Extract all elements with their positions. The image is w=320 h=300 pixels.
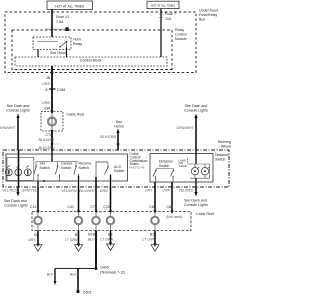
wire: C7 feed corner (96, 162, 108, 187)
svg-text:C12: C12 (30, 205, 37, 209)
svg-text:LT GRN: LT GRN (142, 238, 155, 242)
wire: x18 below block (17, 187, 19, 193)
horn switch 2 (15, 169, 22, 176)
arrow into block (center) (116, 144, 119, 148)
bottom bus (36, 180, 79, 182)
wire: x196 below block (195, 187, 197, 193)
svg-text:G501: G501 (83, 291, 92, 295)
svg-text:GRY: GRY (145, 189, 153, 193)
connector C381 tick (49, 88, 56, 90)
wire: left illumination x=18 (17, 117, 19, 150)
svg-text:Fuse/Relay: Fuse/Relay (199, 13, 217, 17)
fuse F7 element (159, 14, 162, 17)
wire through ring (51, 113, 53, 131)
svg-text:GRY: GRY (28, 238, 36, 242)
bulb loop (188, 164, 210, 178)
wire: main horn wire x=52 from box to cable reel (51, 66, 53, 113)
svg-text:Fuse 7: Fuse 7 (165, 12, 176, 16)
svg-text:Switch: Switch (159, 164, 169, 168)
svg-text:C6: C6 (166, 205, 171, 209)
svg-text:Console Lights: Console Lights (4, 203, 28, 207)
svg-text:(Not used): (Not used) (166, 215, 182, 219)
svg-text:YEL/GRN: YEL/GRN (61, 189, 77, 193)
junction dot on bus (43, 180, 45, 182)
svg-text:Switch: Switch (179, 164, 188, 168)
top bus (set/cancel/resume) (36, 161, 79, 163)
wire: B1 to triangle (78, 231, 80, 246)
svg-text:BLU/WHT: BLU/WHT (79, 189, 96, 193)
svg-text:LT GRN: LT GRN (100, 238, 113, 242)
arrow down x196 (194, 192, 197, 197)
svg-text:GRN/YEL: GRN/YEL (22, 189, 37, 193)
svg-text:See Dash and: See Dash and (4, 199, 27, 203)
svg-text:Console Lights: Console Lights (184, 203, 208, 207)
svg-text:Switch: Switch (215, 157, 225, 161)
svg-text:(Terminals 7-12): (Terminals 7-12) (100, 270, 125, 274)
svg-text:See Dash and: See Dash and (7, 104, 30, 108)
wire: fuse 7 feed x=161 (160, 9, 162, 57)
svg-text:C7A: C7A (46, 133, 54, 137)
svg-text:BLU: BLU (88, 238, 95, 242)
wire: right illumination x=196 (195, 117, 197, 150)
svg-text:LT GRN: LT GRN (65, 238, 78, 242)
label box: HOT AT ALL TIMES (right) (147, 1, 179, 8)
svg-text:BLK/GRN: BLK/GRN (39, 146, 55, 150)
continuation triangle (B2) (34, 245, 42, 252)
wire: relay coil down to control block (37, 50, 39, 58)
svg-text:ORN/WHT: ORN/WHT (176, 126, 194, 130)
LKAS dashed link (187, 159, 189, 165)
svg-text:See Dash and: See Dash and (185, 104, 208, 108)
svg-text:YEL/RED: YEL/RED (2, 189, 17, 193)
svg-text:HOT AT ALL TIMES: HOT AT ALL TIMES (151, 4, 176, 8)
wire: x155 to C8 (154, 182, 156, 212)
svg-text:Control Block: Control Block (80, 59, 102, 63)
svg-text:ORN: ORN (42, 101, 50, 105)
svg-text:Distance: Distance (159, 159, 173, 163)
cable reel ring C7 (95, 212, 97, 231)
svg-text:BLK: BLK (47, 273, 54, 277)
wire: B2 to triangle (37, 231, 39, 246)
wire: x52 into top bus (51, 150, 53, 162)
horn switch sub-box (7, 158, 34, 181)
junction dot at box exit (51, 71, 54, 74)
svg-text:ORN/WHT: ORN/WHT (0, 126, 16, 130)
ground junction G405 (95, 267, 98, 270)
arrow out of cable reel (50, 130, 53, 134)
svg-text:Distance: Distance (215, 153, 229, 157)
arrow down x18 (16, 192, 19, 197)
arrow up (left) (16, 114, 19, 119)
wire: resume output down (C41) (78, 176, 80, 187)
svg-text:ORN: ORN (162, 189, 170, 193)
svg-text:BLK/WHT: BLK/WHT (39, 138, 56, 142)
svg-text:Control: Control (175, 33, 187, 37)
relay control module box (left edge) (171, 30, 173, 73)
inner dashed box (fuse/relay section) (12, 30, 172, 70)
svg-text:Horns: Horns (114, 124, 124, 128)
cable reel ring C41 (78, 212, 80, 231)
cable reel ring C15 (110, 212, 112, 231)
svg-text:Console Lights: Console Lights (6, 108, 30, 112)
svg-text:See Dash and: See Dash and (184, 198, 207, 202)
under-dash fuse/relay box (outer dashed) (5, 12, 196, 73)
ground drop 2 (77, 269, 79, 292)
cable reel ring (48, 118, 56, 126)
bulb 2 (201, 168, 208, 175)
svg-text:HOT AT ALL TIMES: HOT AT ALL TIMES (55, 4, 85, 8)
distance switch 1 (153, 170, 156, 176)
horn relay contact (60, 42, 67, 48)
svg-text:B7B: B7B (88, 233, 95, 237)
svg-text:Fuse 13: Fuse 13 (56, 15, 69, 19)
svg-text:Switch: Switch (61, 166, 71, 170)
wire: B7B ground run (95, 231, 97, 269)
horn switch 1 (5, 169, 12, 176)
cable reel (lower) box (32, 212, 191, 231)
distance/LKAS box (right solid) (150, 154, 213, 183)
svg-text:G405: G405 (100, 266, 109, 270)
cable reel ring C12 (37, 212, 39, 231)
svg-text:8: 8 (46, 88, 48, 92)
svg-text:See Horns: See Horns (50, 51, 67, 55)
cable reel ring C8 (154, 212, 156, 231)
svg-text:Box: Box (199, 18, 205, 22)
steering wheel block (chain line) (3, 150, 229, 187)
svg-text:C41: C41 (67, 205, 74, 209)
svg-text:BLK: BLK (70, 273, 77, 277)
wire: horn wire x=118 (117, 132, 119, 150)
svg-text:ORN: ORN (42, 82, 50, 86)
control block (dashed rect) (15, 57, 167, 66)
wire: x38 to C12 (37, 187, 39, 212)
wire: x172 to C6 (171, 182, 173, 212)
svg-text:BRN: BRN (100, 189, 108, 193)
svg-text:Under-hood: Under-hood (199, 9, 218, 13)
svg-text:Switch: Switch (79, 166, 89, 170)
fuse F13 element (45, 28, 66, 30)
svg-text:Cable Reel: Cable Reel (196, 212, 214, 216)
wire: set output down (C12) (37, 181, 39, 187)
svg-text:SW: SW (44, 107, 50, 111)
pin entry arrows (36, 211, 39, 215)
wire: illumination return down (195, 178, 197, 187)
wire through horn box x=18.5 (18, 150, 20, 187)
bulb 1 (191, 168, 198, 175)
svg-text:C8: C8 (149, 205, 154, 209)
ground bus wire (55, 268, 96, 270)
svg-text:Steering: Steering (218, 140, 231, 144)
switch feed bus (156, 168, 174, 170)
continuation triangle (B3) (107, 244, 115, 251)
svg-text:Console Lights: Console Lights (184, 108, 208, 112)
svg-text:C15: C15 (103, 205, 110, 209)
wire: B3 to triangle (110, 231, 112, 245)
wire: x78.5 to C41 (78, 187, 80, 212)
wire: fuse 13 feed, x=52 top (51, 9, 53, 37)
distance switch 2 (171, 170, 174, 176)
label box: HOT AT ALL TIMES (left) (47, 1, 93, 9)
svg-text:See: See (116, 120, 122, 124)
wire: illumination feed into bus (195, 150, 197, 164)
svg-text:Switch: Switch (40, 166, 50, 170)
continuation triangle (B1) (75, 245, 83, 252)
wire: x110.5 to C15 (110, 187, 112, 212)
svg-text:Relay: Relay (73, 42, 82, 46)
svg-text:Module: Module (175, 37, 187, 41)
svg-text:Relay: Relay (175, 28, 184, 32)
svg-text:JB: JB (46, 76, 51, 80)
svg-text:7.5A: 7.5A (56, 20, 64, 24)
svg-text:C381: C381 (57, 88, 66, 92)
ground terminal G501 (76, 290, 79, 293)
wire: x96 to C7 (95, 177, 97, 212)
svg-text:Cable Reel: Cable Reel (67, 113, 85, 117)
svg-text:Switch: Switch (114, 169, 124, 173)
wire: below cable reel to block (51, 131, 53, 150)
svg-text:BLK/GRN: BLK/GRN (100, 135, 116, 139)
svg-text:YEL/RED: YEL/RED (179, 189, 194, 193)
arrow into cable reel (50, 111, 53, 115)
svg-text:C7: C7 (90, 205, 95, 209)
wire: ACC output down (C15) (110, 175, 112, 187)
svg-text:Wheel: Wheel (221, 145, 231, 149)
svg-text:PHOTO-46: PHOTO-46 (130, 165, 145, 169)
continuation triangle (B13) (151, 245, 159, 252)
wire: relay output down (66, 48, 68, 58)
horn relay box (33, 37, 71, 50)
wire: B13 to triangle (154, 231, 156, 246)
horn switch 3 (24, 169, 31, 176)
switch assembly box (left solid) (6, 154, 128, 181)
arrow up (center) (116, 129, 119, 134)
svg-text:Horn: Horn (73, 38, 81, 42)
horn relay coil (37, 41, 58, 43)
cable reel (upper) box (41, 112, 63, 132)
junction dot + tick (51, 143, 53, 145)
ground drop 1 (54, 269, 56, 283)
svg-text:10A: 10A (165, 17, 172, 21)
arrow up (right) (194, 114, 197, 119)
